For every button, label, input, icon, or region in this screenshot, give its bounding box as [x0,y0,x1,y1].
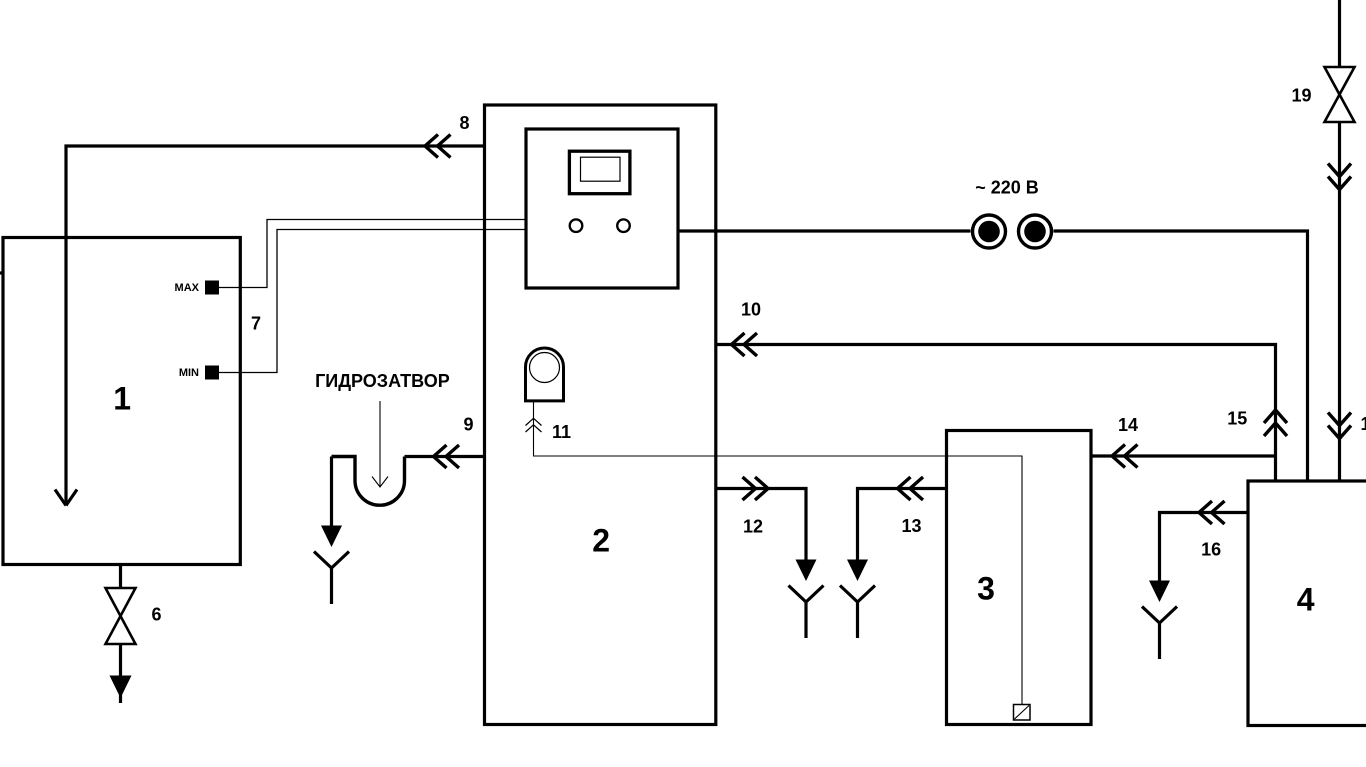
wire 8 pipe from boiler 2 to vessel 1 [66,146,485,505]
wire 10 pipe from unit 4 to boiler 2 [716,345,1276,482]
wire 9 pipe from boiler 2 to water seal [405,455,485,458]
power cable from panel [678,229,971,232]
svg-text:MIN: MIN [179,367,199,379]
open arrowhead into vessel 1 [55,490,77,506]
level sensor box in tank 3 [1014,705,1031,721]
wire 14 pipe from tank 3 to riser [1091,454,1276,457]
sensor 11 dial [530,353,560,383]
svg-text:ГИДРОЗАТВОР: ГИДРОЗАТВОР [315,371,450,391]
display outer bezel [569,151,630,194]
svg-text:15: 15 [1227,409,1247,429]
svg-text:11: 11 [552,422,571,442]
thin chevrons on sensor line [526,418,542,432]
flow chevrons on wire 12 (pointing right) [743,477,769,500]
svg-text:2: 2 [592,523,610,559]
down flow chevrons below valve 19 [1328,164,1351,190]
svg-text:6: 6 [151,605,161,625]
svg-text:10: 10 [741,300,761,320]
supply pipe from top to unit 4 [1338,0,1341,67]
wire 7 signal line from MIN sensor to control panel [219,230,527,373]
pipe stub on left edge of vessel 1 [0,271,4,274]
svg-text:12: 12 [743,517,763,537]
pipe below valve 19 [1338,122,1341,481]
drain pipe from water seal [330,457,333,530]
svg-text:13: 13 [901,516,921,536]
funnel drain symbol 16 [1142,607,1177,660]
svg-text:8: 8 [459,113,469,133]
solid arrowhead on seal drain [321,526,342,548]
solid arrowhead below valve 6 [110,676,132,699]
funnel drain symbol below water seal [314,552,349,605]
vessel 1 (tank) [3,238,240,565]
funnel drain symbol 13 [840,586,875,639]
MIN level sensor square [206,366,219,379]
thin pointer arrow from label to water seal [379,401,381,487]
water seal U-trap [332,457,405,506]
svg-text:3: 3 [977,571,995,607]
svg-text:1: 1 [113,381,131,417]
svg-text:MAX: MAX [175,282,200,294]
svg-text:14: 14 [1118,415,1138,435]
flow chevrons on wire 8 [425,135,451,158]
knob right [617,219,630,232]
svg-text:~ 220 В: ~ 220 В [975,178,1039,198]
knob left [570,219,583,232]
wire 16 drain pipe from unit 4 [1160,513,1249,584]
svg-text:19: 19 [1291,86,1311,106]
wire 7 signal line from MAX sensor to control panel [219,220,527,288]
flow chevrons on wire 13 [898,477,924,500]
svg-text:7: 7 [251,314,261,334]
tank 3 [947,431,1092,725]
solid arrowhead on wire 12 [796,560,817,582]
solid arrowhead on wire 13 [847,560,868,582]
flow chevrons on wire 16 [1199,501,1225,524]
boiler 2 (main unit) [485,105,716,725]
pressure sensor 11 body [526,348,564,401]
power cable to unit 4 [1054,231,1308,481]
solid arrowhead on wire 16 [1149,581,1170,603]
up flow chevrons 15 on riser [1264,410,1287,436]
MAX level sensor square [206,281,219,294]
valve 6 [106,588,136,644]
unit 4 [1248,481,1366,726]
funnel drain symbol 12 [789,586,824,639]
svg-text:16: 16 [1201,540,1221,560]
drain pipe below vessel 1 [119,565,122,590]
wire 13 drain pipe from tank 3 [858,489,947,563]
valve 19 [1325,67,1355,122]
wire 12 drain pipe from boiler 2 [716,489,806,563]
flow chevrons on wire 10 [732,333,758,356]
plug connector right [1019,215,1052,248]
plug connector left [973,215,1006,248]
sensor 11 signal line to tank 3 [534,401,1023,704]
control panel U5 [526,129,678,288]
display screen [581,157,621,181]
flow chevrons on wire 9 [434,445,460,468]
svg-text:17: 17 [1361,414,1366,434]
svg-text:9: 9 [463,415,473,435]
flow chevrons on wire 14 [1112,445,1138,468]
down flow chevrons 17 near unit 4 [1328,413,1351,439]
pipe below valve 6 [119,644,122,703]
svg-text:4: 4 [1297,582,1315,618]
